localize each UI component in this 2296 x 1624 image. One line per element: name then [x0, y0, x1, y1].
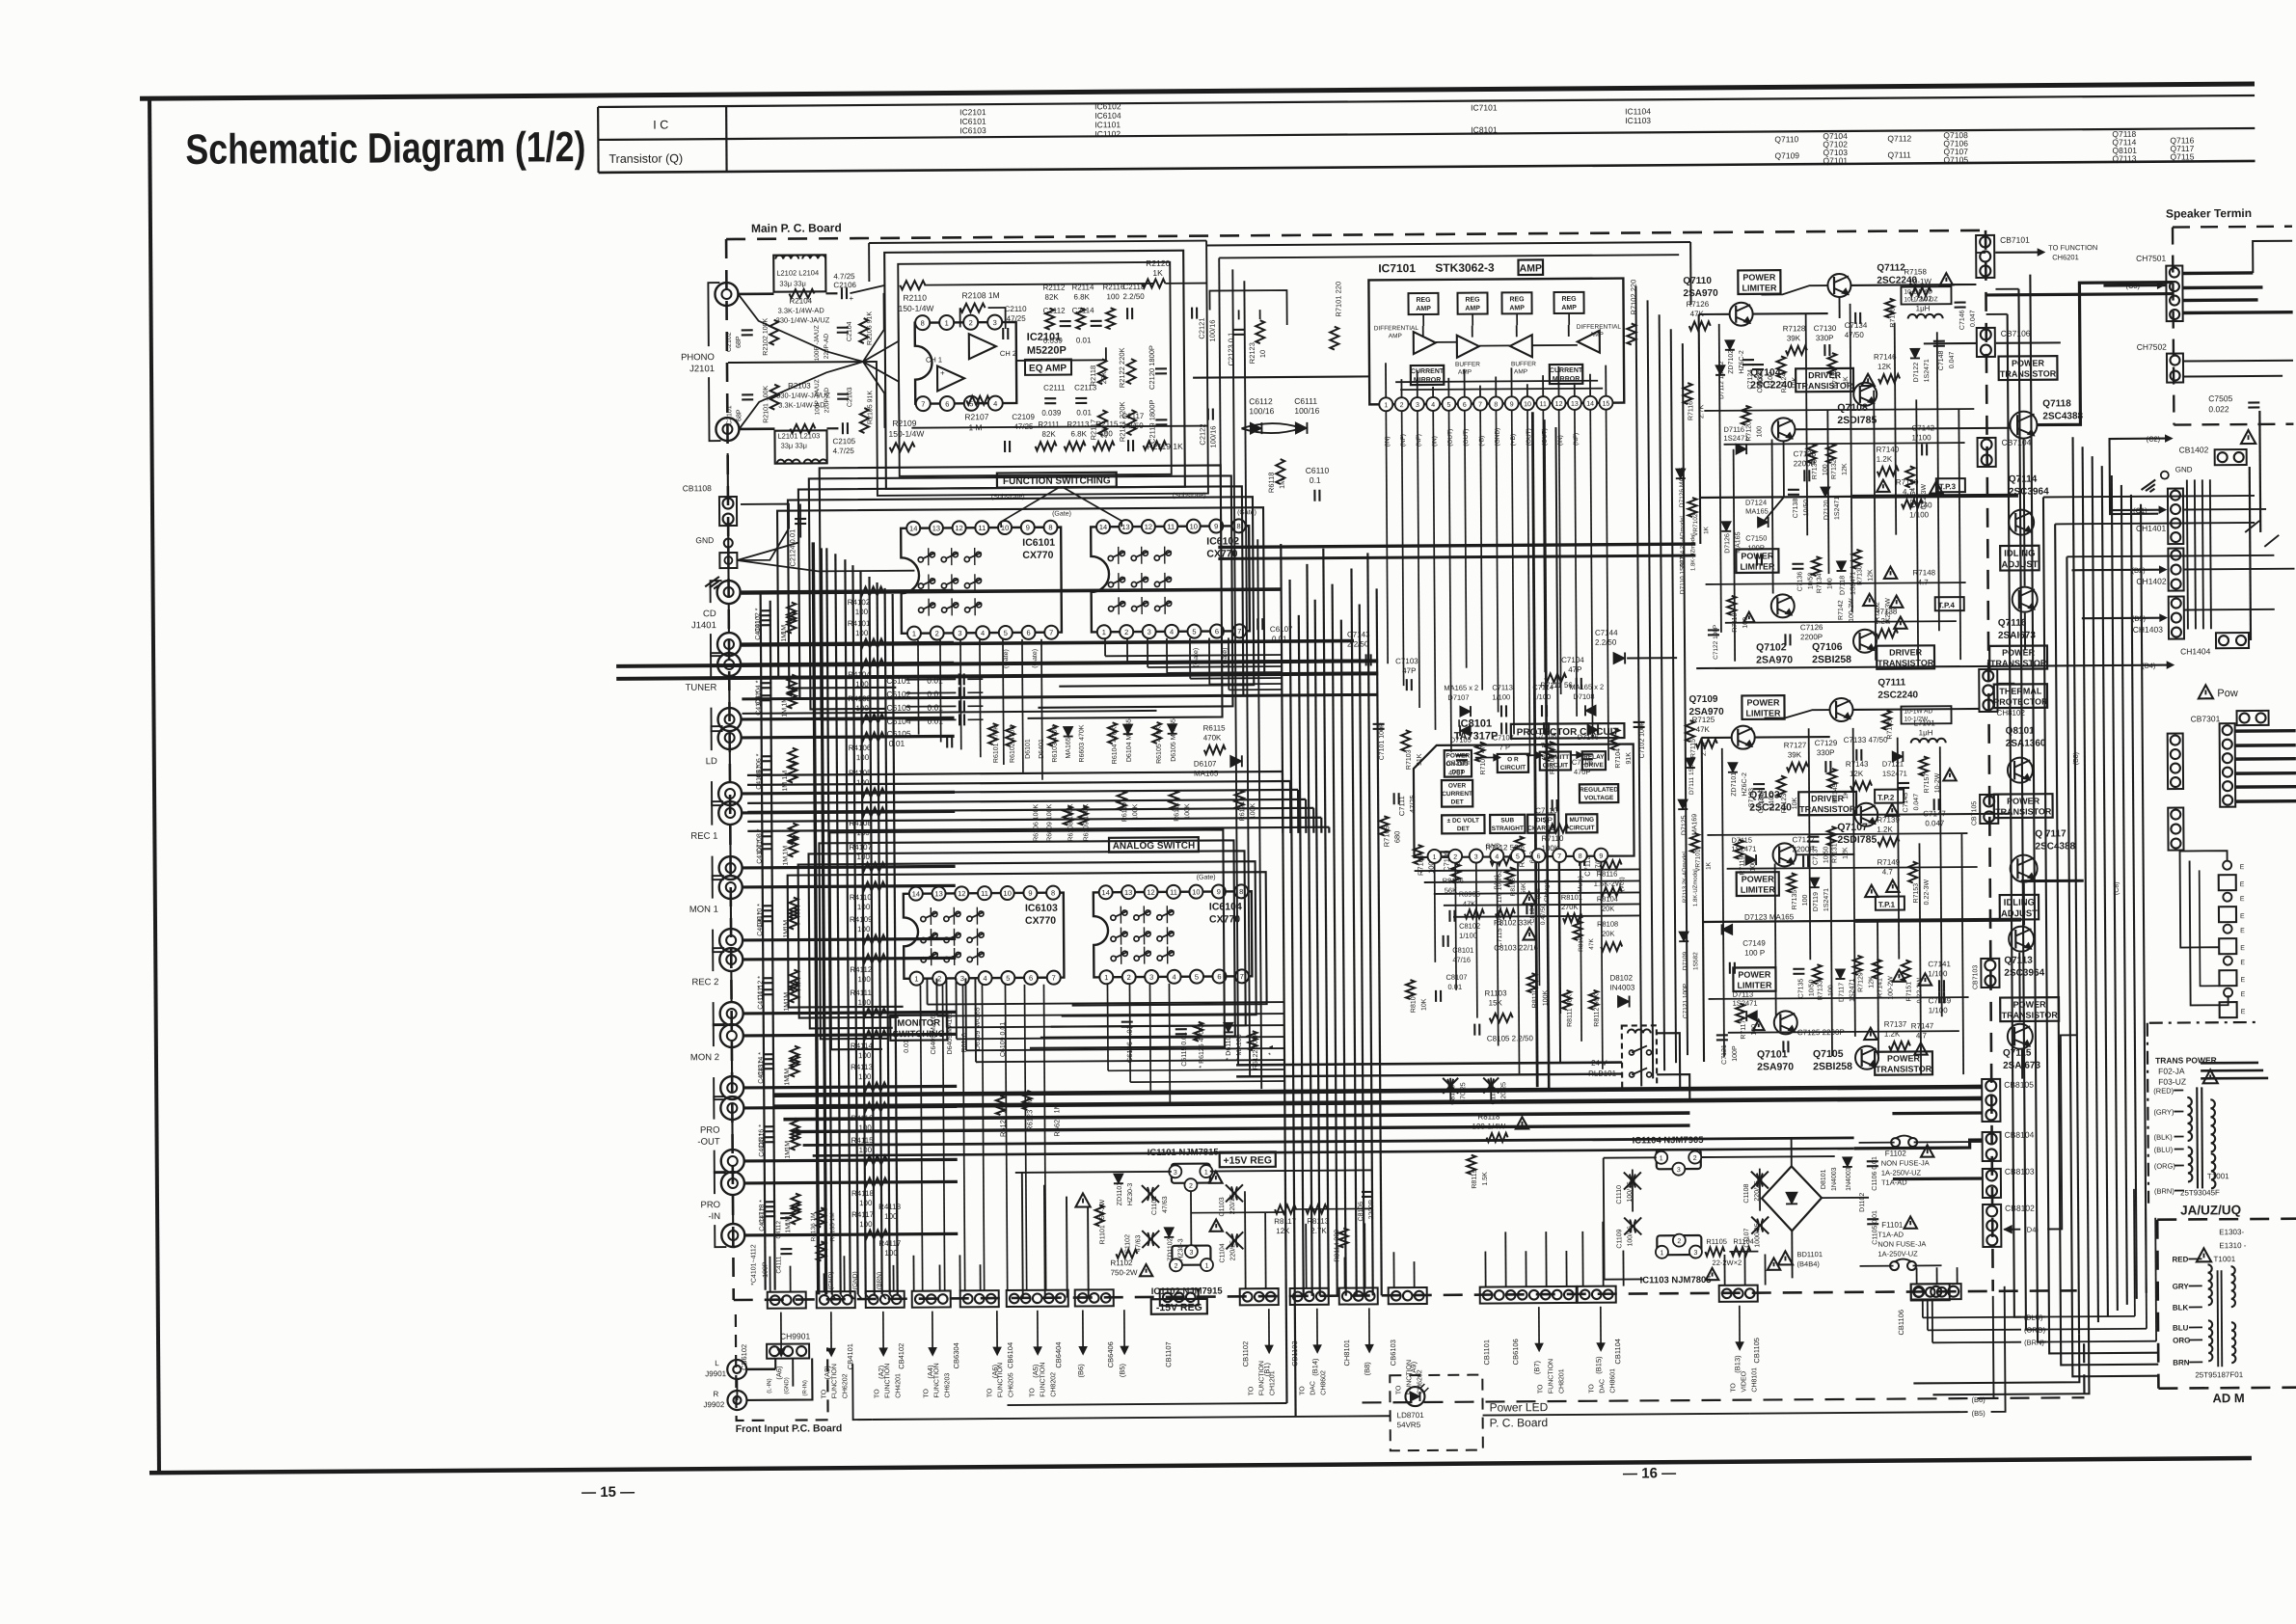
svg-text:1/100: 1/100 [1459, 932, 1477, 940]
svg-text:CH8201: CH8201 [1558, 1368, 1565, 1394]
transistor Q8101 [2008, 758, 2033, 783]
svg-text:1/100: 1/100 [1928, 969, 1948, 978]
svg-text:12K: 12K [1867, 569, 1874, 582]
buffer amp triangle left [1457, 336, 1479, 358]
bottom board dashed line [734, 1290, 2085, 1407]
svg-text:C7144: C7144 [1595, 629, 1618, 637]
svg-text:+15V REG: +15V REG [1223, 1154, 1272, 1166]
svg-text:C7113: C7113 [1492, 683, 1513, 691]
svg-text:100/16: 100/16 [1294, 406, 1319, 416]
T.P.2 box [1875, 790, 1904, 803]
svg-text:IC1101 NJM7815: IC1101 NJM7815 [1148, 1147, 1220, 1158]
protector pin verticals [1434, 863, 1437, 962]
svg-text:5: 5 [1192, 627, 1196, 636]
right vertical 8-wire bus [2073, 437, 2079, 1334]
svg-text:100/16: 100/16 [1208, 426, 1217, 448]
resistors R8117 12K R8113 2.7K [1275, 1204, 1296, 1213]
svg-text:(Gate): (Gate) [1032, 649, 1039, 668]
svg-text:CH1201: CH1201 [1269, 1370, 1276, 1395]
svg-text:REG: REG [1416, 297, 1431, 304]
capacitor C4109 and resistor network R4109 [762, 915, 773, 917]
svg-text:IC7101: IC7101 [1471, 102, 1498, 112]
svg-text:10-1W AD: 10-1W AD [1904, 288, 1932, 295]
bus lower bends [1913, 1334, 2079, 1383]
EQ feedback loop wires [884, 251, 1185, 489]
svg-text:T.P.4: T.P.4 [1938, 601, 1956, 609]
svg-text:C8105 2.2/50: C8105 2.2/50 [1487, 1034, 1534, 1042]
capacitor C2104 220P [837, 327, 849, 329]
capacitor C8106 2200P [1362, 1191, 1373, 1193]
svg-text:T1001: T1001 [2207, 1172, 2229, 1180]
REG AMP boxes [1408, 293, 1438, 314]
svg-text:R7148: R7148 [1912, 568, 1935, 577]
svg-text:C7148: C7148 [1938, 350, 1945, 370]
svg-text:LD: LD [706, 756, 717, 767]
svg-text:Q7112: Q7112 [1877, 262, 1905, 273]
svg-text:(Gate): (Gate) [1003, 649, 1010, 668]
svg-text:C6409 MA165: C6409 MA165 [931, 1012, 937, 1055]
capacitor C1101 47/63 butterfly [1142, 1185, 1159, 1203]
svg-text:3: 3 [1149, 973, 1153, 982]
svg-text:VR7101: VR7101 [1695, 849, 1702, 872]
+15V REG boxed [1220, 1151, 1276, 1167]
jack bracket [711, 581, 722, 603]
svg-text:D7122: D7122 [1913, 363, 1920, 383]
svg-text:39K: 39K [1787, 334, 1801, 342]
svg-text:FUNCTION: FUNCTION [933, 1363, 940, 1397]
POWER TRANSISTOR boxed lower [1994, 794, 2053, 818]
svg-text:10: 10 [1258, 350, 1267, 358]
svg-text:6.8K: 6.8K [1070, 429, 1087, 438]
svg-text:14: 14 [1099, 523, 1107, 531]
svg-text:R1104: R1104 [1733, 1237, 1754, 1246]
svg-text:68P: 68P [736, 336, 743, 348]
-15V REG boxed [1151, 1299, 1207, 1314]
svg-text:150-1/4W: 150-1/4W [888, 429, 924, 439]
svg-text:100K: 100K [1184, 803, 1191, 820]
svg-text:C7129: C7129 [1815, 739, 1838, 747]
svg-text:CB7101: CB7101 [2000, 235, 2030, 245]
capacitor C4113 and resistor network R4113 [763, 1063, 774, 1065]
svg-text:CB8102: CB8102 [2005, 1204, 2035, 1213]
svg-text:R7157: R7157 [1924, 773, 1931, 794]
op-amp IC6101 CX770 body [901, 528, 1062, 634]
svg-text:HZ6C-2: HZ6C-2 [1739, 350, 1745, 374]
transistor Q7112 [1827, 274, 1850, 297]
svg-text:Q7116: Q7116 [1998, 618, 2027, 629]
transistor Q7103 [1854, 803, 1877, 826]
svg-text:REC 2: REC 2 [691, 977, 718, 988]
svg-text:D6107: D6107 [1194, 759, 1217, 768]
ground symbol [705, 577, 723, 592]
svg-text:ON-OFF: ON-OFF [1445, 761, 1470, 768]
svg-text:MON 2: MON 2 [690, 1052, 719, 1063]
junction wire [732, 1195, 734, 1224]
svg-text:(B4B4): (B4B4) [1796, 1259, 1820, 1268]
svg-text:C1109: C1109 [1616, 1229, 1623, 1248]
svg-text:1/100: 1/100 [1929, 1006, 1949, 1015]
svg-text:POWER: POWER [1742, 874, 1775, 883]
svg-text:3: 3 [1474, 854, 1478, 861]
svg-text:D7119: D7119 [1813, 892, 1820, 911]
svg-text:LIMITER: LIMITER [1745, 708, 1781, 717]
wire TUNER upper [741, 663, 954, 664]
input jack CD J1401 upper [717, 581, 741, 604]
POWER LIMITER boxed [1738, 270, 1780, 294]
svg-text:R8101: R8101 [1561, 893, 1582, 902]
IC8101 pins 1-9 [1428, 850, 1442, 863]
svg-text:1N4003: 1N4003 [1831, 1167, 1838, 1191]
svg-text:10: 10 [1001, 524, 1009, 532]
svg-text:2.2/50: 2.2/50 [1122, 292, 1145, 301]
svg-text:T.P.1: T.P.1 [1878, 901, 1896, 909]
input jack MON 1 upper [719, 876, 743, 899]
heavy output wires lower [1855, 920, 2021, 921]
svg-text:R8116: R8116 [1597, 870, 1618, 879]
svg-text:Q7101: Q7101 [1823, 155, 1848, 165]
protector internal wires [1475, 756, 1500, 758]
svg-text:Q7114: Q7114 [2009, 474, 2038, 485]
capacitor C2103 220P [837, 393, 849, 395]
svg-text:R7135: R7135 [1792, 890, 1798, 910]
small component column E parts [2223, 861, 2231, 870]
transistor Q7117 [2011, 855, 2038, 882]
svg-text:CIRCUIT: CIRCUIT [1569, 825, 1594, 831]
svg-text:(GND): (GND) [828, 1271, 835, 1289]
svg-text:AMP: AMP [1514, 368, 1527, 375]
svg-text:EQ AMP: EQ AMP [1029, 364, 1067, 374]
svg-text:PRO: PRO [700, 1125, 720, 1136]
svg-text:82K: 82K [1041, 430, 1056, 439]
svg-text:1M: 1M [784, 1076, 791, 1086]
input jack CD J1401 lower [717, 633, 741, 656]
svg-text:1M: 1M [781, 633, 788, 642]
svg-text:DIFFERENTIAL: DIFFERENTIAL [1577, 324, 1622, 331]
svg-text:R7128: R7128 [1783, 324, 1806, 333]
svg-text:R7126: R7126 [1687, 300, 1710, 309]
svg-text:LIMITER: LIMITER [1740, 561, 1775, 571]
svg-text:1/100: 1/100 [1912, 433, 1932, 442]
svg-text:POWER: POWER [2012, 358, 2045, 367]
POWER LIMITER boxed 2 [1736, 549, 1778, 573]
MONITOR SWITCHING boxed label [890, 1015, 947, 1040]
svg-text:R7110: R7110 [1541, 834, 1564, 843]
svg-text:1M: 1M [783, 856, 790, 866]
svg-text:Q7106: Q7106 [1812, 641, 1843, 653]
svg-text:POWER: POWER [1741, 551, 1774, 560]
svg-text:4.7/25: 4.7/25 [833, 272, 855, 281]
svg-text:22-2W×2: 22-2W×2 [1712, 1259, 1742, 1267]
svg-text:1A-250V-UZ: 1A-250V-UZ [1881, 1168, 1922, 1177]
svg-text:TO FUNCTION: TO FUNCTION [2048, 243, 2097, 252]
svg-text:14: 14 [909, 524, 917, 532]
input jack TUNER lower [717, 708, 741, 731]
svg-text:0.047: 0.047 [1913, 794, 1920, 811]
svg-text:AMP: AMP [1389, 333, 1402, 339]
wire stubs function IC bottom pins [920, 986, 922, 1291]
svg-text:100: 100 [1756, 426, 1763, 438]
resistor R2102 100K [770, 320, 778, 345]
svg-text:MA165: MA165 [1194, 769, 1219, 777]
svg-text:R6118: R6118 [1267, 473, 1276, 494]
FUNCTION SWITCHING boxed label [997, 473, 1117, 488]
svg-text:RLB101: RLB101 [1588, 1069, 1617, 1078]
svg-text:STK3062-3: STK3062-3 [1435, 260, 1495, 274]
svg-text:VIDEO: VIDEO [1741, 1370, 1747, 1392]
svg-text:R2122 220K: R2122 220K [1118, 347, 1126, 388]
svg-text:CB1106: CB1106 [1897, 1310, 1905, 1336]
svg-text:R4110: R4110 [850, 893, 873, 902]
svg-text:TRANSISTOR: TRANSISTOR [2002, 1010, 2059, 1019]
fuse F1102 [1891, 1138, 1900, 1147]
capacitor C2101 68P [742, 393, 753, 395]
svg-text:(B13): (B13) [1733, 1355, 1742, 1373]
svg-text:D7126: D7126 [1724, 533, 1731, 554]
svg-text:(GND): (GND) [1495, 428, 1501, 447]
svg-text:100K: 100K [1132, 803, 1139, 820]
svg-text:2SBI258: 2SBI258 [1813, 1061, 1852, 1072]
svg-text:2: 2 [1693, 1155, 1697, 1162]
svg-text:C6103: C6103 [886, 703, 910, 713]
OR CIRCUIT box [1498, 754, 1528, 772]
svg-text:C6112: C6112 [1249, 396, 1273, 406]
svg-text:R2103: R2103 [788, 381, 811, 390]
svg-text:POWER: POWER [2002, 648, 2036, 658]
svg-text:Main P. C. Board: Main P. C. Board [751, 221, 842, 235]
svg-text:CB7103: CB7103 [1972, 965, 1979, 989]
svg-text:C8106: C8106 [1358, 1202, 1364, 1222]
chassis ground lug [719, 553, 737, 568]
svg-text:4: 4 [1172, 973, 1175, 982]
svg-text:C2109: C2109 [1012, 413, 1035, 421]
svg-text:C2104: C2104 [847, 321, 853, 341]
svg-text:R1105: R1105 [1706, 1237, 1727, 1246]
input jack TUNER upper [717, 653, 741, 676]
jack bracket [714, 1096, 725, 1120]
svg-text:R7117: R7117 [1741, 1019, 1747, 1039]
svg-text:E: E [2240, 945, 2245, 952]
svg-text:P. C. Board: P. C. Board [1490, 1416, 1549, 1429]
svg-text:I C: I C [653, 118, 668, 131]
svg-text:3: 3 [1416, 402, 1419, 409]
svg-text:Q7105: Q7105 [1813, 1048, 1844, 1060]
svg-text:8: 8 [1236, 522, 1240, 530]
svg-text:Q7115: Q7115 [2170, 151, 2194, 161]
svg-text:Q7103: Q7103 [1749, 789, 1780, 800]
svg-text:0.01: 0.01 [1076, 336, 1092, 344]
svg-text:10-1/2W: 10-1/2W [1904, 716, 1929, 722]
svg-text:R6603 470K: R6603 470K [1079, 724, 1086, 762]
svg-text:(OUT): (OUT) [1447, 429, 1454, 447]
transistor Q7104 [1771, 418, 1795, 441]
capacitor C4118 and resistor network R4118 [764, 1201, 775, 1203]
wire eq to stk [1320, 659, 1363, 661]
IC7101 pins 1-15 [1379, 397, 1392, 411]
svg-text:STRAIGHT: STRAIGHT [1492, 826, 1524, 832]
svg-text:9: 9 [1217, 887, 1221, 896]
svg-text:4: 4 [993, 399, 997, 408]
svg-text:8: 8 [1051, 888, 1055, 897]
svg-text:C1110: C1110 [1616, 1185, 1623, 1204]
svg-text:AD M: AD M [2212, 1391, 2244, 1405]
right outer vertical wires speaker feed [2008, 314, 2046, 1317]
svg-text:DRIVE: DRIVE [1584, 762, 1605, 769]
svg-text:CURRENT: CURRENT [1550, 367, 1583, 374]
svg-text:REG: REG [1465, 297, 1480, 304]
svg-text:100/16: 100/16 [1208, 320, 1217, 342]
MUTING CIRCUIT box [1566, 814, 1597, 832]
svg-text:13: 13 [1571, 401, 1579, 408]
input jack PHONO J2101 lower [716, 418, 739, 441]
svg-text:R1102: R1102 [1110, 1259, 1133, 1267]
svg-text:13: 13 [1124, 888, 1132, 897]
svg-text:C7145: C7145 [1903, 793, 1909, 813]
JA transformer windings [2208, 1264, 2212, 1305]
svg-text:1: 1 [1660, 1250, 1663, 1257]
svg-text:BUFFER: BUFFER [1511, 361, 1536, 367]
svg-text:11: 11 [1167, 523, 1175, 531]
svg-text:TRANSISTOR: TRANSISTOR [1995, 806, 2052, 816]
svg-text:Q7113: Q7113 [2004, 956, 2033, 966]
resistor R2106 91K [859, 318, 868, 343]
svg-text:C2119 1800P: C2119 1800P [1148, 400, 1156, 444]
svg-text:C2122: C2122 [1198, 423, 1206, 445]
svg-text:DAC: DAC [1599, 1379, 1606, 1394]
svg-text:R7120: R7120 [1745, 421, 1752, 442]
svg-text:D7118: D7118 [1840, 576, 1847, 595]
svg-text:(B5): (B5) [1118, 1363, 1126, 1377]
capacitor C1102 47/63 butterfly [1142, 1231, 1159, 1248]
svg-text:1/100: 1/100 [1909, 510, 1930, 519]
protector circuit outline [1414, 744, 1634, 857]
svg-text:8: 8 [1494, 401, 1498, 408]
amp region wire verticals [1719, 324, 1721, 633]
upper amp wires [1699, 313, 1730, 315]
svg-text:12: 12 [1555, 401, 1563, 408]
transistor Q7111 [1829, 698, 1852, 721]
capacitor C2102 68P [742, 329, 753, 331]
svg-text:10: 10 [1004, 889, 1012, 898]
svg-text:J2101: J2101 [689, 364, 715, 374]
svg-text:1M: 1M [785, 1224, 792, 1233]
PROTECTOR CIRCUIT boxed label [1511, 723, 1625, 739]
svg-text:TUNER: TUNER [686, 683, 717, 693]
IC2101 pin 2 top / 5 bottom [963, 315, 978, 330]
svg-text:C7130: C7130 [1814, 324, 1837, 333]
svg-text:33μ 33μ: 33μ 33μ [781, 441, 807, 449]
svg-text:20K: 20K [1602, 930, 1614, 938]
wire PRO lower [744, 1233, 958, 1235]
svg-text:100P -JA/UZ: 100P -JA/UZ [814, 379, 821, 415]
svg-text:C2114: C2114 [1072, 306, 1095, 314]
resistor R6118 1M [1276, 459, 1284, 484]
capacitor C4106 and resistor network R4106 [761, 755, 772, 757]
svg-text:13: 13 [934, 889, 942, 898]
svg-text:R4118: R4118 [851, 1189, 875, 1198]
svg-text:FUNCTION: FUNCTION [1258, 1361, 1265, 1395]
transistor Q7113 [2009, 927, 2034, 952]
svg-text:CB1107: CB1107 [1164, 1341, 1173, 1367]
svg-text:47K: 47K [1463, 900, 1475, 908]
svg-text:Transistor (Q): Transistor (Q) [608, 151, 683, 166]
capacitor C4114 and resistor network R4114 [763, 1053, 774, 1055]
svg-text:C6105: C6105 [887, 729, 911, 739]
svg-text:C2113: C2113 [1074, 383, 1097, 392]
svg-text:D7117: D7117 [1838, 983, 1845, 1002]
connector CB1106 [1911, 1284, 1961, 1299]
svg-text:100: 100 [1750, 860, 1757, 872]
jack bracket [715, 1172, 726, 1194]
svg-text:3: 3 [993, 318, 997, 327]
svg-text:E: E [2240, 881, 2245, 888]
svg-text:2: 2 [1127, 973, 1131, 982]
svg-text:SWITCHING: SWITCHING [893, 1029, 945, 1040]
wire CD lower [741, 642, 954, 644]
IC2101 pin 3 top / 4 bottom [987, 315, 1002, 330]
svg-text:100P -JA/UZ: 100P -JA/UZ [814, 325, 821, 361]
junction wire [729, 749, 731, 782]
POWER LIMITER boxed 4 [1733, 967, 1775, 991]
svg-text:CD: CD [703, 609, 716, 619]
svg-text:ADJUST: ADJUST [2001, 908, 2038, 919]
svg-text:DIS: DIS [1536, 817, 1548, 824]
svg-text:(RED): (RED) [2153, 1087, 2174, 1096]
svg-text:LD8701: LD8701 [1397, 1411, 1425, 1420]
svg-text:+: + [849, 294, 853, 303]
capacitor C1109 100/16 butterfly [1624, 1217, 1641, 1234]
svg-text:C7505: C7505 [2208, 393, 2232, 403]
input jack PRO -IN upper [721, 1172, 744, 1195]
svg-text:CB6103: CB6103 [1389, 1340, 1397, 1366]
svg-text:R7155: R7155 [1887, 719, 1894, 740]
svg-text:3: 3 [1693, 1250, 1697, 1257]
CURRENT MIRROR boxed left [1411, 365, 1445, 385]
svg-text:D7120: D7120 [1823, 500, 1830, 520]
svg-text:0.1: 0.1 [1310, 475, 1321, 485]
svg-text:CH1403: CH1403 [2133, 625, 2164, 635]
capacitor C4105 and resistor network R4105 [761, 769, 772, 771]
POWER TRANSISTOR boxed 3 [1875, 1051, 1932, 1074]
svg-text:VR7102: VR7102 [1692, 513, 1699, 536]
transistor Q7105 [1855, 1046, 1878, 1069]
svg-text:HZ30-3: HZ30-3 [1177, 1238, 1184, 1260]
svg-text:1: 1 [1205, 1263, 1209, 1270]
svg-text:DET: DET [1451, 769, 1464, 775]
svg-text:2SA970: 2SA970 [1756, 654, 1793, 665]
svg-text:JA/UZ/UQ: JA/UZ/UQ [2180, 1203, 2241, 1217]
svg-text:1M: 1M [785, 1150, 792, 1159]
svg-text:MUTING: MUTING [1569, 817, 1594, 824]
svg-text:CH7501: CH7501 [2136, 254, 2167, 263]
svg-text:E: E [2240, 913, 2245, 920]
svg-text:T1A-AD: T1A-AD [1877, 1231, 1904, 1239]
svg-text:Speaker Termin: Speaker Termin [2166, 206, 2252, 221]
svg-text:0.039: 0.039 [1043, 337, 1064, 345]
wire MON 2 upper [743, 1034, 957, 1036]
connector CB8102 [1983, 1204, 2001, 1247]
svg-text:TO: TO [1248, 1386, 1255, 1395]
wire LD upper [742, 736, 955, 738]
svg-text:C7104: C7104 [1561, 656, 1584, 664]
svg-text:2.7K: 2.7K [1310, 1227, 1327, 1235]
svg-text:6.8K: 6.8K [1073, 292, 1090, 301]
DIS CHARGE box [1527, 815, 1554, 833]
svg-text:R8108: R8108 [1597, 920, 1618, 929]
svg-text:FUNCTION: FUNCTION [831, 1364, 838, 1398]
svg-text:Q7109: Q7109 [1688, 694, 1718, 705]
svg-text:R7138: R7138 [1875, 608, 1898, 616]
svg-text:0.01: 0.01 [1076, 408, 1092, 417]
